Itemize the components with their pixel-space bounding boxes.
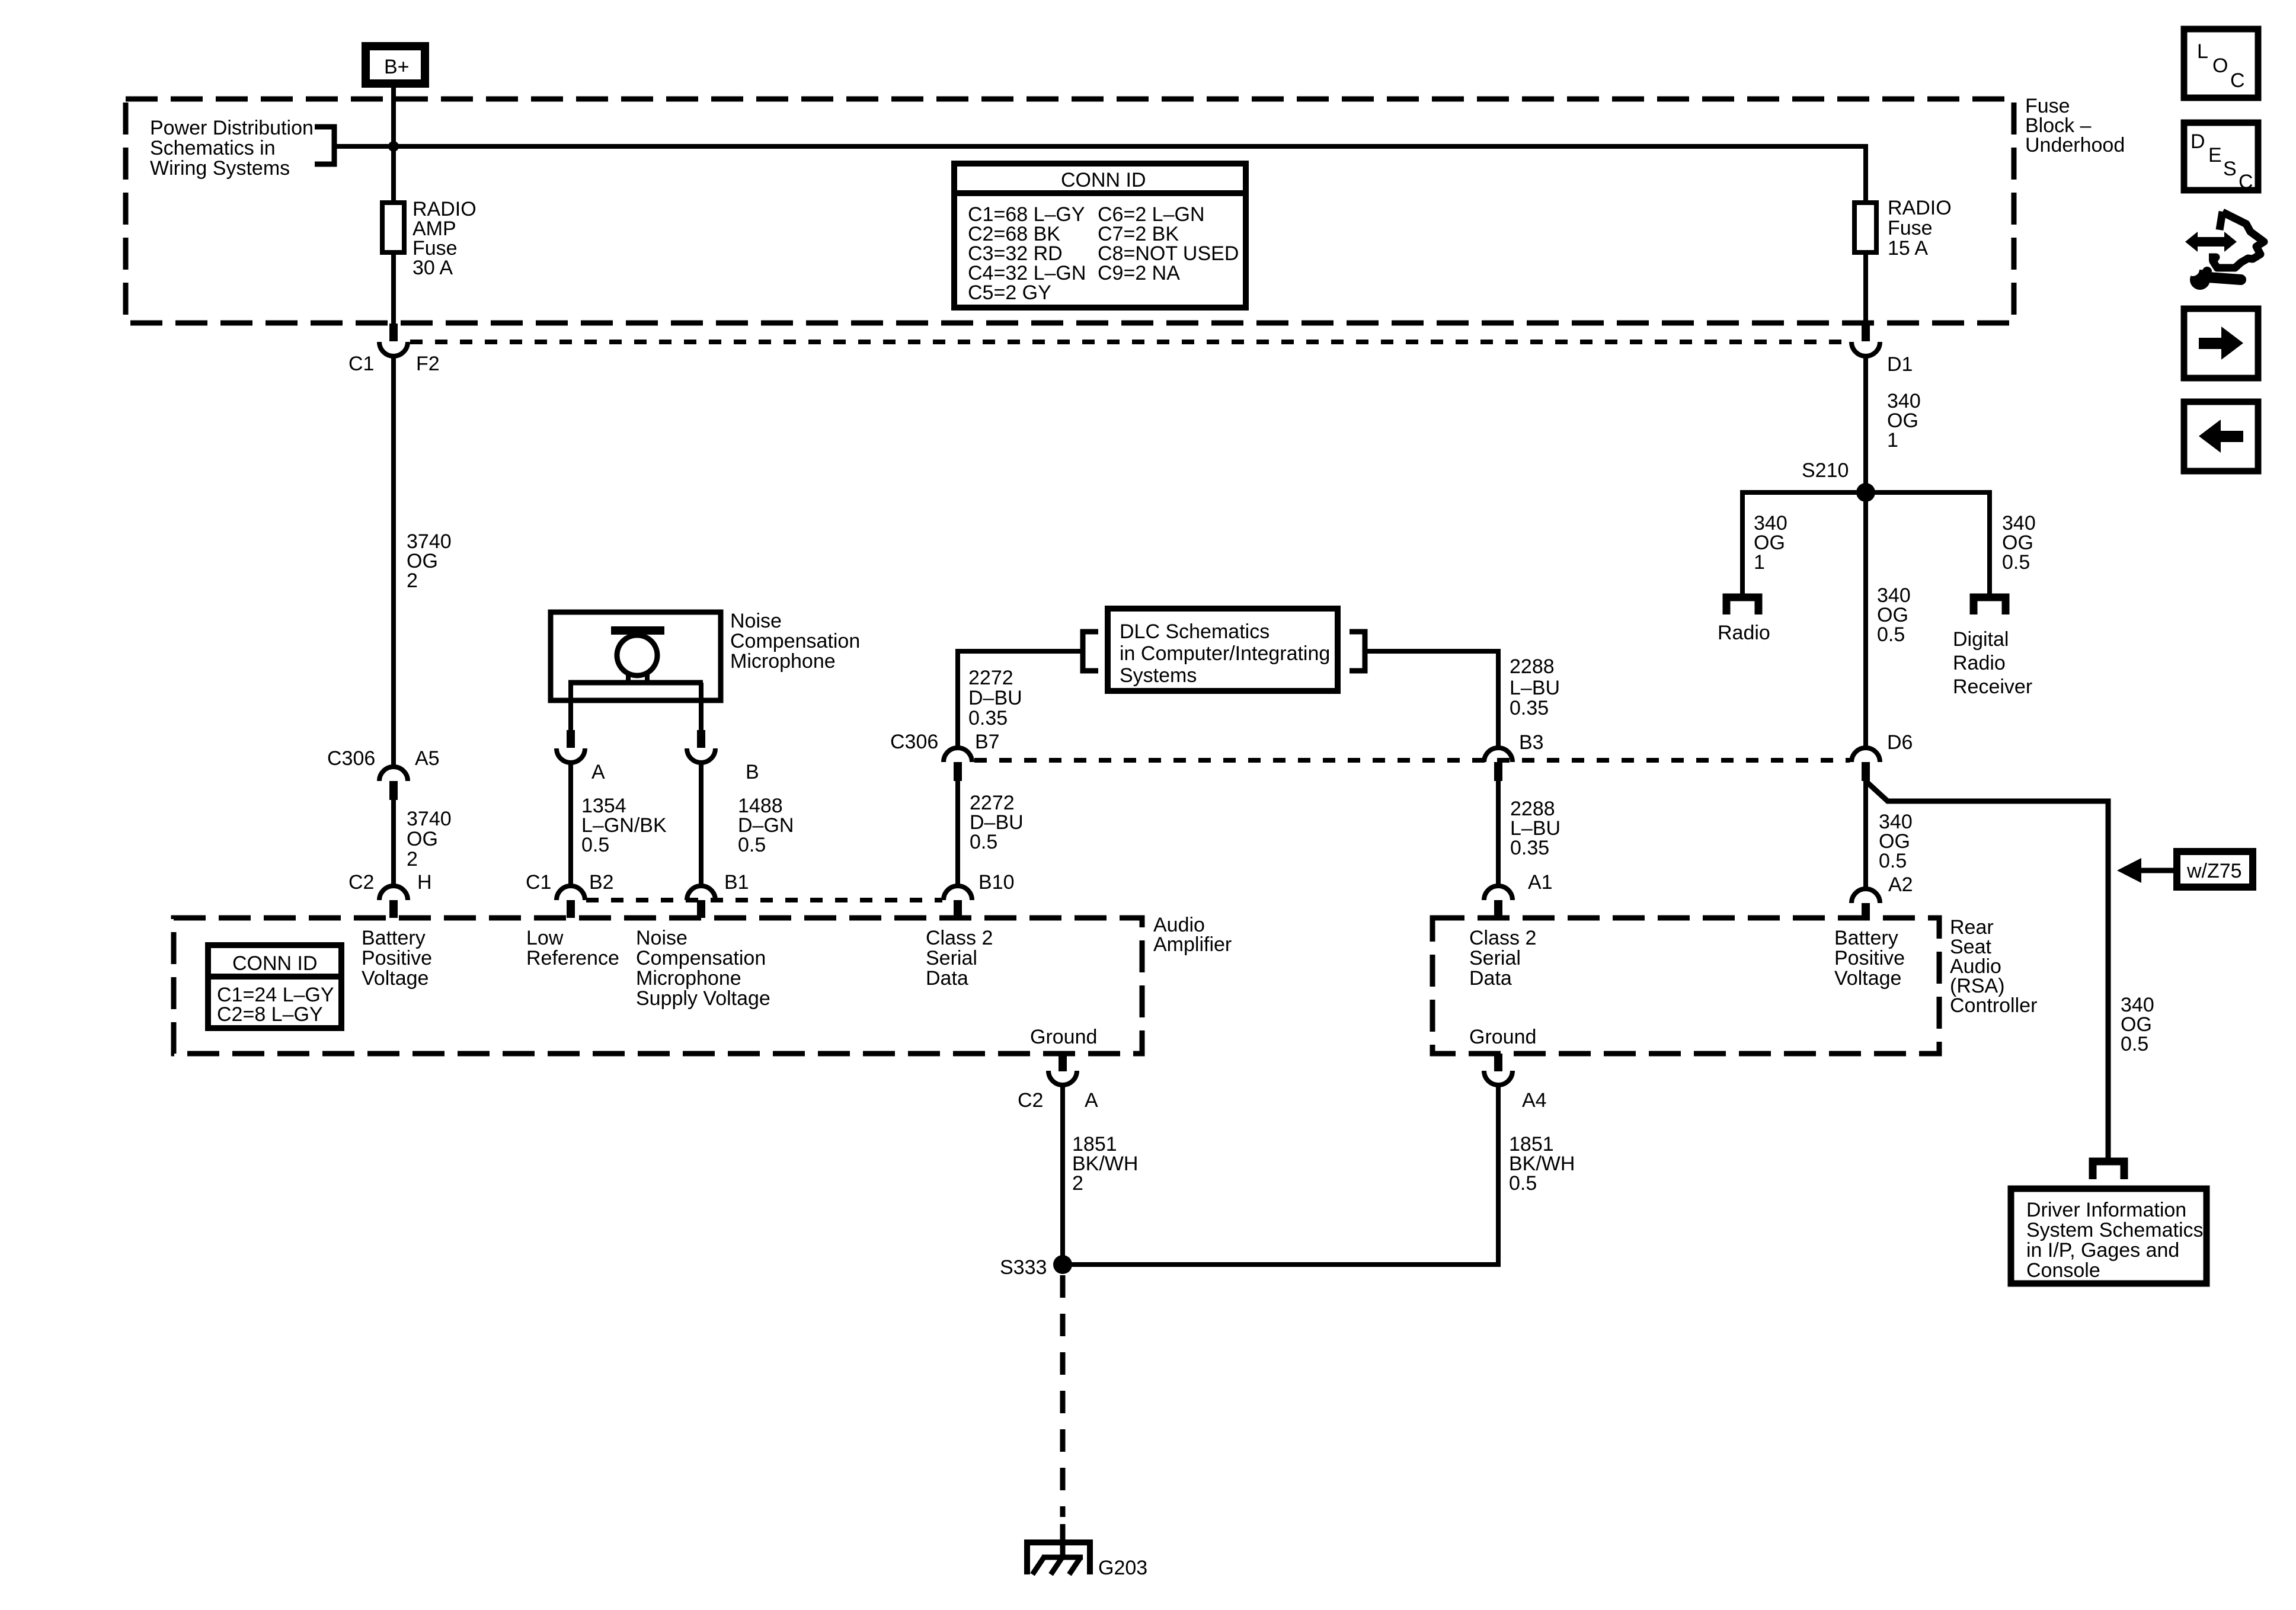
w/Z75 option box (2177, 852, 2253, 887)
svg-text:Class 2: Class 2 (926, 927, 993, 949)
rear seat audio RSA controller dashed box (1432, 918, 1939, 1054)
svg-text:B2: B2 (589, 871, 614, 894)
svg-text:Systems: Systems (1120, 664, 1197, 687)
svg-text:B1: B1 (724, 871, 749, 894)
branch wire D6 to w/Z75 feed (1866, 781, 2108, 1160)
svg-text:D1: D1 (1887, 353, 1913, 376)
svg-text:H: H (417, 871, 432, 894)
connector C306 pin A5 (327, 747, 440, 800)
wire D6 down to A2 (1863, 781, 1868, 890)
DLC schematics reference box (1108, 609, 1338, 691)
svg-text:Microphone: Microphone (636, 967, 741, 990)
noise compensation microphone box (551, 612, 721, 700)
branch wire S210 to Radio and Digital Radio Receiver (1742, 492, 1990, 594)
connector line B7 to B3 to D6 (dotted) (974, 758, 1850, 763)
svg-text:Reference: Reference (526, 947, 619, 969)
connector pin B3 (1484, 731, 1544, 781)
svg-text:2272: 2272 (968, 667, 1013, 689)
wire label 340 OG 1 below D1 (1887, 390, 1921, 452)
svg-text:G203: G203 (1098, 1557, 1147, 1579)
svg-text:0.5: 0.5 (738, 834, 766, 856)
svg-text:0.35: 0.35 (1510, 697, 1549, 719)
svg-text:Compensation: Compensation (636, 947, 766, 969)
connector pin A4 below RSA controller ground (1484, 1054, 1547, 1112)
wire mic B to amplifier B1 (699, 763, 703, 888)
terminal bracket Radio (1726, 597, 1758, 614)
svg-text:Voltage: Voltage (1834, 967, 1901, 990)
wire label 3740 OG 2 (407, 530, 452, 592)
wire C1-F2 down to connector C306 A5 (391, 356, 396, 769)
svg-text:Wiring Systems: Wiring Systems (150, 157, 290, 180)
connector C2 pin H into audio amplifier (348, 871, 432, 918)
svg-text:Low: Low (526, 927, 564, 949)
wire S210 down to D6 (1863, 492, 1868, 748)
svg-text:Power Distribution: Power Distribution (150, 117, 314, 139)
svg-text:C306: C306 (327, 747, 375, 770)
svg-text:B+: B+ (384, 56, 410, 78)
svg-text:Noise: Noise (730, 610, 782, 632)
svg-text:A2: A2 (1888, 873, 1913, 896)
wire DLC right bracket to B3 (1367, 651, 1498, 748)
wire DLC left bracket to B7 (958, 651, 1081, 748)
svg-text:2288: 2288 (1510, 655, 1555, 678)
svg-text:0.5: 0.5 (2002, 551, 2030, 574)
svg-text:E: E (2208, 144, 2222, 167)
svg-text:Battery: Battery (362, 927, 426, 949)
svg-text:System Schematics: System Schematics (2026, 1219, 2204, 1241)
wire label 1851 BK/WH 0.5 (1509, 1133, 1575, 1195)
battery positive terminal B+ (366, 46, 425, 84)
svg-text:Microphone: Microphone (730, 650, 836, 673)
svg-text:w/Z75: w/Z75 (2186, 860, 2242, 882)
connector C1 pin F2 (fuse block output) (348, 324, 440, 375)
wire label 1488 D-GN 0.5 (738, 795, 794, 856)
arrow from w/Z75 to wire (2140, 868, 2173, 873)
wire RADIO fuse to connector D1 (1863, 252, 1868, 325)
svg-text:C2=8 L–GY: C2=8 L–GY (217, 1003, 323, 1026)
connector pin A2 into RSA controller (1851, 889, 1880, 920)
mic wire to pin A (568, 683, 573, 731)
wire label 340 OG 0.5 (w/Z75 branch) (2121, 994, 2154, 1055)
connector pin B10 into audio amplifier (944, 871, 1015, 918)
svg-text:C: C (2230, 69, 2245, 92)
svg-text:0.5: 0.5 (1509, 1172, 1537, 1195)
svg-text:Data: Data (1469, 967, 1512, 990)
svg-text:A4: A4 (1522, 1089, 1547, 1112)
fuse RADIO AMP Fuse 30 A (382, 198, 477, 279)
dashed ground wire S333 to G203 (1060, 1275, 1066, 1517)
svg-text:F2: F2 (416, 353, 440, 375)
svg-text:Voltage: Voltage (362, 967, 428, 990)
svg-text:S333: S333 (1000, 1256, 1047, 1279)
svg-text:Ground: Ground (1030, 1026, 1097, 1048)
svg-text:Ground: Ground (1469, 1026, 1536, 1048)
audio amplifier dashed box (174, 918, 1142, 1054)
wire label 1851 BK/WH 2 (1072, 1133, 1138, 1195)
svg-text:Driver Information: Driver Information (2026, 1199, 2186, 1221)
svg-text:B: B (746, 761, 759, 783)
wire A5 to connector C2 H (391, 800, 396, 888)
svg-text:0.5: 0.5 (2121, 1033, 2148, 1055)
svg-text:Compensation: Compensation (730, 630, 860, 652)
svg-text:A: A (1085, 1089, 1098, 1112)
wire from B+ down to RADIO AMP fuse (391, 87, 396, 203)
svg-text:2: 2 (407, 848, 418, 870)
svg-text:C2: C2 (1018, 1089, 1043, 1112)
svg-text:C1: C1 (526, 871, 551, 894)
fuse block underhood dashed box (126, 99, 2014, 323)
svg-text:C2: C2 (348, 871, 374, 894)
svg-text:C5=2 GY: C5=2 GY (968, 281, 1051, 304)
svg-text:2: 2 (1072, 1172, 1083, 1195)
svg-text:C306: C306 (890, 731, 938, 753)
connector C2 pin A below audio amplifier ground (1018, 1054, 1098, 1112)
terminal bracket Digital Radio Receiver (1974, 597, 2006, 614)
svg-text:D: D (2191, 130, 2205, 153)
svg-text:C1: C1 (348, 353, 374, 375)
wire label 340 OG 0.5 with pin A2 (1879, 811, 1913, 896)
wire RSA ground to S333 (1063, 1085, 1498, 1265)
svg-text:DLC Schematics: DLC Schematics (1120, 620, 1269, 643)
svg-text:Console: Console (2026, 1259, 2100, 1282)
splice S333 (1000, 1255, 1072, 1279)
svg-text:Noise: Noise (636, 927, 687, 949)
connector D1 (fuse block output right) (1851, 324, 1913, 376)
svg-text:Fuse: Fuse (1888, 217, 1933, 239)
CONN ID table for audio amplifier (208, 945, 341, 1028)
connector line C1-F2 to D1 (dotted) (410, 340, 1850, 344)
CONN ID table for fuse block (954, 164, 1246, 308)
connector C306 pin B7 (890, 731, 1000, 781)
svg-text:Supply Voltage: Supply Voltage (636, 987, 770, 1010)
svg-text:Serial: Serial (926, 947, 977, 969)
connector line B2 to B10 (dotted) (586, 898, 942, 902)
connector pin A1 into RSA controller (1484, 871, 1553, 918)
pin label Noise Compensation Microphone Supply Voltage (636, 927, 770, 1010)
svg-text:D6: D6 (1887, 731, 1913, 754)
svg-text:S210: S210 (1802, 459, 1849, 482)
terminal bracket to driver information schematics (2093, 1161, 2124, 1179)
bracket right of DLC box (1350, 632, 1365, 671)
svg-text:A1: A1 (1528, 871, 1553, 894)
svg-text:0.5: 0.5 (1879, 850, 1907, 872)
wire D1 to splice S210 (1863, 356, 1868, 492)
svg-text:Serial: Serial (1469, 947, 1521, 969)
svg-text:1: 1 (1754, 551, 1765, 574)
svg-text:Class 2: Class 2 (1469, 927, 1536, 949)
label Power Distribution Schematics in Wiring Systems (150, 117, 314, 180)
junction node on B+ wire (388, 141, 399, 152)
svg-text:RADIO: RADIO (1888, 197, 1952, 219)
svg-text:CONN ID: CONN ID (232, 952, 318, 975)
svg-text:Amplifier: Amplifier (1153, 933, 1232, 956)
svg-text:S: S (2223, 158, 2237, 180)
wire B7 down to B10 (955, 781, 960, 888)
svg-text:B3: B3 (1519, 731, 1544, 754)
svg-text:A5: A5 (415, 747, 440, 770)
ground G203 (1027, 1542, 1147, 1579)
wire label 340 OG 0.5 (digital radio receiver branch) (2002, 512, 2036, 574)
connector C1 pin B2 into audio amplifier (526, 871, 614, 918)
svg-text:OG: OG (407, 828, 438, 850)
connector pin D6 (1851, 731, 1913, 781)
wire label 2288 L-BU 0.35 (1510, 655, 1560, 719)
svg-text:CONN ID: CONN ID (1061, 169, 1146, 191)
icon vehicle outline with wrench (2185, 212, 2264, 290)
wire label 3740 OG 2 (second) (407, 808, 452, 870)
wire amplifier ground to S333 (1060, 1085, 1065, 1265)
pin label Battery Positive Voltage (RSA) (1834, 927, 1905, 990)
svg-text:C9=2 NA: C9=2 NA (1098, 262, 1180, 284)
wire B3 down to A1 (1496, 781, 1501, 888)
svg-text:O: O (2212, 55, 2228, 77)
wire label 2288 L-BU 0.35 (lower) (1510, 798, 1560, 859)
wire RADIO AMP fuse to connector C1 F2 (391, 252, 396, 325)
svg-text:0.35: 0.35 (968, 707, 1008, 729)
wire label 340 OG 0.5 (center) (1877, 584, 1911, 646)
icon box LOC (2184, 29, 2258, 98)
svg-text:0.5: 0.5 (581, 834, 609, 856)
svg-text:Radio: Radio (1718, 622, 1770, 644)
svg-text:Receiver: Receiver (1953, 676, 2032, 698)
svg-text:0.5: 0.5 (970, 831, 997, 853)
wire label 1354 L-GN/BK 0.5 (581, 795, 667, 856)
svg-text:Underhood: Underhood (2025, 134, 2125, 156)
svg-text:Schematics in: Schematics in (150, 137, 276, 159)
label Digital Radio Receiver (1953, 628, 2032, 698)
icon box DESC (2184, 123, 2258, 193)
svg-text:Positive: Positive (362, 947, 432, 969)
icon box arrow right (2184, 309, 2258, 378)
svg-text:Battery: Battery (1834, 927, 1898, 949)
svg-text:Radio: Radio (1953, 652, 2006, 674)
wire label 340 OG 1 (radio branch) (1754, 512, 1787, 574)
driver information system schematics box (2011, 1189, 2207, 1283)
svg-text:in Computer/Integrating: in Computer/Integrating (1120, 642, 1330, 665)
wire mic A to amplifier B2 (568, 763, 573, 888)
label Rear Seat Audio (RSA) Controller (1950, 916, 2037, 1017)
mic wire to pin B (699, 683, 703, 731)
svg-text:L: L (2197, 40, 2208, 63)
bracket pointing to power distribution note (315, 127, 334, 164)
wire label 2272 D-BU 0.35 (968, 667, 1022, 729)
connector pin B1 into audio amplifier (687, 871, 749, 918)
svg-text:1: 1 (1887, 429, 1898, 452)
svg-text:in I/P, Gages and: in I/P, Gages and (2026, 1239, 2179, 1262)
svg-text:C: C (2239, 171, 2253, 193)
svg-text:A: A (591, 761, 605, 783)
fuse RADIO Fuse 15 A (1854, 197, 1952, 260)
svg-text:3740: 3740 (407, 808, 452, 830)
pin label Battery Positive Voltage (362, 927, 432, 990)
connector pin A of microphone (557, 730, 605, 783)
svg-text:Positive: Positive (1834, 947, 1905, 969)
bracket left of DLC box (1083, 632, 1098, 671)
svg-text:Digital: Digital (1953, 628, 2009, 651)
label Fuse Block - Underhood (2025, 95, 2125, 156)
pin label Class 2 Serial Data (RSA) (1469, 927, 1536, 990)
svg-text:15 A: 15 A (1888, 237, 1928, 260)
svg-text:2: 2 (407, 569, 418, 592)
pin label Class 2 Serial Data (amplifier) (926, 927, 993, 990)
svg-text:0.5: 0.5 (1877, 623, 1905, 646)
connector pin B of microphone (687, 730, 759, 783)
svg-text:Controller: Controller (1950, 994, 2037, 1017)
svg-text:D–BU: D–BU (968, 687, 1022, 709)
svg-text:0.35: 0.35 (1510, 837, 1549, 859)
svg-text:B7: B7 (975, 731, 1000, 753)
icon box arrow left (2184, 402, 2258, 471)
label Audio Amplifier (1153, 914, 1232, 956)
pin label Low Reference (526, 927, 619, 969)
bus wire from bracket to right fuse (332, 146, 1866, 203)
splice S210 (1802, 459, 1875, 502)
svg-text:Data: Data (926, 967, 968, 990)
svg-text:B10: B10 (978, 871, 1015, 894)
svg-text:30 A: 30 A (412, 257, 453, 279)
label Noise Compensation Microphone (730, 610, 860, 673)
svg-text:L–BU: L–BU (1510, 677, 1560, 699)
wire label 2272 D-BU 0.5 (970, 792, 1024, 853)
